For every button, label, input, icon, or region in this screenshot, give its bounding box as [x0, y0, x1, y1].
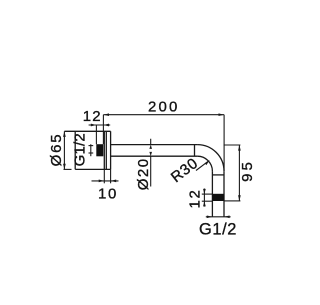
svg-text:G1/2: G1/2 [199, 221, 237, 239]
vertical pipe left edge [211, 171, 213, 217]
wall thread black box [96, 144, 103, 156]
dim 12 right line [203, 189, 205, 207]
dim O65 bottom tick [64, 168, 72, 170]
dim 95 bottom extension [225, 200, 241, 202]
svg-text:Ø20: Ø20 [135, 157, 152, 190]
arrow 10 left (outside) [99, 180, 105, 183]
arrow 10 right (outside) [111, 180, 117, 183]
arrow 12 top left (outside) [91, 124, 97, 127]
arrow G12 bottom right (outside) [224, 215, 230, 218]
pipe bottom line [111, 155, 198, 157]
svg-text:95: 95 [239, 159, 256, 182]
thread OD mini dim line [90, 144, 92, 156]
arrow 200 left [103, 113, 109, 116]
bend joint line vertical pipe [212, 174, 224, 176]
svg-text:12: 12 [83, 108, 102, 125]
bend joint line horizontal pipe [194, 145, 196, 157]
svg-text:Ø65: Ø65 [48, 133, 65, 167]
dim O20 line [150, 139, 152, 187]
arrow 95 top [238, 145, 241, 151]
vertical pipe right edge [223, 171, 225, 217]
arrow 12 right top (outside) [203, 189, 206, 194]
arrow 12 top right (outside) [103, 124, 109, 127]
dim 10 left extension [103, 169, 105, 183]
arrow thread OD down [89, 152, 94, 154]
dim 95 top extension [224, 144, 241, 146]
dim 12 right bracket top tick [202, 193, 213, 195]
dim 12 top line [89, 124, 111, 126]
dim 95 line [238, 145, 240, 201]
arrow O65 top [63, 131, 66, 137]
dim 12 right bracket bottom tick [202, 200, 213, 202]
arrow G12 bottom left (outside) [207, 215, 213, 218]
flange plate inner line [105, 131, 107, 169]
outlet thread black box [212, 194, 224, 201]
bend inner arc [197, 156, 212, 171]
dim 10 line [92, 180, 119, 182]
dim R30 leader line [196, 161, 208, 170]
svg-text:12: 12 [186, 189, 203, 209]
bend outer arc [197, 145, 224, 172]
dim 200 right extension [223, 115, 225, 171]
arrow 200 right [219, 113, 225, 116]
svg-text:200: 200 [148, 98, 180, 115]
svg-text:G1/2: G1/2 [71, 133, 88, 166]
dim O65 line [63, 131, 65, 169]
dim 10 right extension [110, 169, 112, 183]
flange plate back face line [103, 131, 105, 169]
dim 200 left extension / thread right extension [102, 115, 104, 145]
arrow 12 right bottom (outside) [203, 201, 206, 206]
dim 12 top left extension [95, 125, 97, 144]
svg-text:10: 10 [98, 186, 118, 203]
arrow O20 down [149, 152, 152, 156]
arrow 95 bottom [238, 195, 241, 201]
arrow O20 up [149, 145, 152, 149]
arrow thread OD up [89, 145, 94, 147]
arrow R30 [205, 160, 210, 165]
pipe top line [111, 144, 198, 146]
flange (escutcheon) outline [64, 131, 110, 169]
dim G1/2 bottom line / pipe end [206, 216, 231, 218]
dim 200 line [103, 114, 224, 116]
arrow O65 bottom [63, 164, 66, 170]
